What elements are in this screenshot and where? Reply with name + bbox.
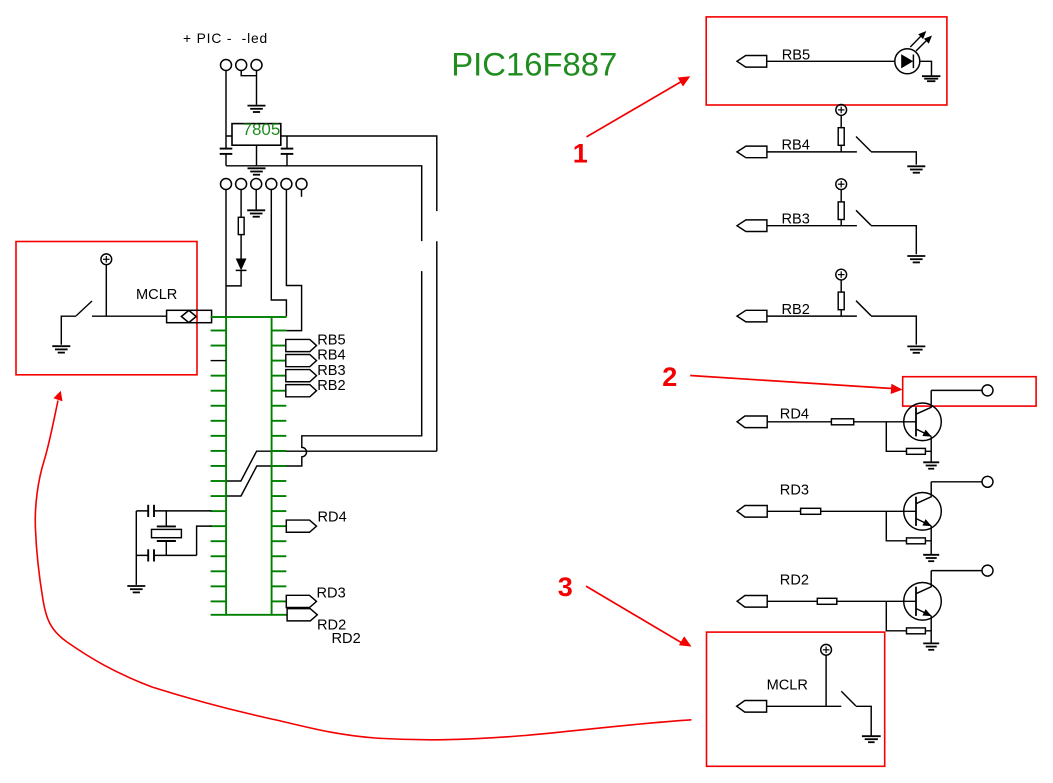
resistor R1 [238, 217, 244, 234]
LED D1 [236, 259, 247, 271]
label RB2 at chip [317, 378, 345, 394]
vcc symbol +V RB3 [836, 179, 847, 190]
wire J2 pin3 down [255, 189, 257, 209]
transistor Q1 [904, 390, 942, 440]
connector J1 pins [221, 60, 263, 71]
capacitor C1 [220, 136, 233, 166]
pin circle Q1 [982, 385, 993, 396]
svg-text:RD3: RD3 [317, 586, 346, 602]
wire J2 pin6 stub [301, 189, 303, 197]
wire RB5 to LED [767, 60, 895, 62]
ground Q1 [923, 462, 939, 468]
resistor pullup RB3 [838, 202, 844, 220]
resistor pullup RB4 [838, 128, 844, 146]
label RB5 at chip [317, 333, 345, 349]
wire base resistor to Q2 [821, 510, 916, 512]
label RD3 [780, 483, 809, 499]
wire emitter Q1 to ground [930, 436, 932, 461]
wire feedback Q3 [886, 601, 931, 631]
wire LED to ground [920, 61, 932, 75]
vcc symbol +V RB2 [836, 269, 847, 280]
resistor base RD3 [801, 508, 821, 514]
annotation box 1 (LED on RB5) [706, 17, 947, 105]
jumper FB1 [167, 310, 212, 322]
annotation arrow 1 [587, 76, 691, 137]
wire switch to ground RB4 [871, 152, 916, 165]
svg-text:RD3: RD3 [780, 483, 809, 499]
wire switch to ground RB3 [871, 226, 916, 255]
label RB2 [782, 302, 810, 318]
port tag RD4 [737, 416, 767, 428]
annotation box 3 (MCLR pushbutton) [707, 632, 885, 766]
wire J2 pin5 to chip pin [286, 189, 301, 331]
wire collector Q3 [931, 570, 982, 572]
label RD3 at chip [317, 586, 346, 602]
ground J1 [248, 106, 266, 112]
wire J1 pin3 down [256, 70, 258, 105]
wire J2 pin4 to chip VDD row [271, 189, 286, 316]
ground RB2 [907, 346, 925, 352]
svg-text:RD4: RD4 [780, 407, 809, 423]
label RB4 at chip [317, 348, 345, 364]
svg-text:RB3: RB3 [317, 363, 345, 379]
resistor base RD4 [831, 419, 853, 425]
annotation arrow 2 [690, 376, 902, 395]
wire base resistor to Q3 [837, 600, 916, 602]
connector J2 pins [221, 179, 308, 190]
ground RB3 [907, 256, 925, 262]
capacitor C2 [281, 136, 294, 166]
wire feedback Q1 [886, 422, 931, 452]
wire R to node RB3 [840, 220, 842, 226]
pin circle Q2 [982, 476, 993, 487]
svg-text:RD2: RD2 [332, 631, 361, 647]
label RD2 at chip [317, 618, 346, 634]
switch blade RB2 [856, 301, 871, 316]
wire switch to ground MCLR [856, 706, 871, 735]
wire RD3 to base resistor [767, 510, 800, 512]
label RB3 [782, 212, 810, 228]
wire J2 pin2 to resistor [240, 189, 242, 217]
ground J2 [247, 210, 265, 216]
label RB5 [782, 48, 810, 64]
pin circle Q3 [982, 565, 993, 576]
wire ground rail [226, 166, 422, 241]
wire +V1 down [105, 265, 107, 317]
port tag RD3 [737, 506, 767, 518]
annotation curved arrow to box A [35, 391, 691, 740]
capacitor C3 [136, 505, 211, 517]
annotation number 3 [558, 572, 573, 602]
label MCLR [136, 287, 177, 303]
port tag RD2 [737, 596, 767, 608]
wire emitter Q3 to ground [930, 616, 932, 643]
wire net A chip pin to +5V vertical [226, 451, 437, 481]
label RD4 at chip [318, 510, 347, 526]
wire switch to ground RB2 [871, 316, 916, 345]
LED D2 [895, 49, 920, 74]
ground RB4 [907, 166, 925, 172]
label RD2 [780, 573, 809, 589]
resistor feedback Q3 [907, 628, 926, 634]
svg-text:3: 3 [558, 572, 573, 602]
svg-text:1: 1 [573, 139, 588, 169]
label MCLR bottom [767, 678, 808, 694]
wire RD2 to base resistor [767, 600, 817, 602]
svg-text:+ PIC - -led: + PIC - -led [183, 31, 268, 46]
resistor feedback Q1 [907, 448, 926, 454]
resistor pullup RB2 [838, 292, 844, 310]
wire RB2 to switch [767, 315, 857, 317]
ground MCLR [862, 736, 881, 742]
wire 7805 ground pin [256, 145, 258, 166]
ground D2 [922, 76, 940, 81]
crystal X1 [152, 511, 182, 556]
wire J1 pin1 to 7805 input [226, 70, 232, 136]
svg-text:PIC16F887: PIC16F887 [451, 45, 617, 82]
svg-text:RB4: RB4 [317, 348, 345, 364]
label RB3 at chip [317, 363, 345, 379]
switch SW2 blade [841, 691, 856, 706]
wire +V to R RB3 [840, 190, 842, 202]
ic U1 PIC16F887 body [226, 317, 272, 615]
annotation arrow 3 [586, 586, 692, 647]
wire emitter Q2 to ground [930, 526, 932, 554]
wire RD4 to base resistor [767, 421, 831, 423]
wire feedback Q2 [886, 511, 931, 541]
capacitor C4 [136, 549, 196, 561]
wire collector Q1 [931, 389, 982, 391]
switch blade RB3 [856, 210, 871, 225]
annotation box A (MCLR pushbutton) [16, 242, 197, 375]
wire R to node RB2 [840, 310, 842, 316]
port tag RB5 at chip [286, 339, 317, 351]
ground SW1 [52, 346, 70, 352]
resistor feedback Q2 [907, 538, 926, 544]
vcc symbol +V MCLR [821, 644, 832, 655]
port tag RD3 at chip [286, 595, 316, 607]
wire 7805 output to right vertical [281, 136, 437, 451]
port tag RB2 at chip [286, 385, 317, 397]
wire base resistor to Q1 [854, 421, 916, 423]
title PIC16F887 [451, 45, 617, 82]
port tag MCLR [737, 701, 767, 713]
wire crystal ground rail [135, 511, 137, 585]
port tag RD4 at chip [286, 520, 316, 532]
ground Q3 [923, 643, 939, 649]
wire J2 pin1 down to MCLR net [225, 189, 227, 316]
port tag RB2 [737, 310, 767, 322]
ic U1 left pins [211, 331, 227, 602]
switch SW1 blade [76, 301, 92, 316]
ic U1 right pins [272, 331, 287, 602]
svg-text:MCLR: MCLR [136, 287, 177, 303]
svg-text:MCLR: MCLR [767, 678, 808, 694]
port tag RB4 at chip [286, 355, 317, 367]
wire collector Q2 [931, 481, 982, 483]
wire C4 to OSC2 pin [197, 526, 212, 555]
annotation number 2 [662, 362, 677, 392]
label RB4 [782, 138, 810, 154]
annotation box 2 (collector pin) [903, 377, 1036, 406]
port tag RB5 [737, 56, 767, 68]
vcc symbol +V1 [101, 254, 112, 265]
connector J1 label [183, 31, 268, 46]
transistor Q2 [904, 482, 942, 530]
wire LED to pin1 net [226, 270, 241, 286]
switch blade RB4 [856, 137, 871, 152]
resistor base RD2 [817, 598, 837, 604]
label RD2 floating [332, 631, 361, 647]
wire +V MCLR down [825, 655, 827, 706]
svg-text:RB5: RB5 [317, 333, 345, 349]
wire MCLR to switch [767, 705, 842, 707]
svg-text:2: 2 [662, 362, 677, 392]
label RD4 [780, 407, 809, 423]
wire R1 to LED [240, 235, 242, 259]
ic U1 bottom pin row [211, 614, 288, 616]
svg-text:RD4: RD4 [318, 510, 347, 526]
ground Q2 [923, 555, 939, 561]
wire net B chip pin with hop [226, 271, 422, 496]
wire +V to R RB2 [840, 280, 842, 292]
svg-text:7805: 7805 [243, 120, 281, 139]
port tag RB4 [737, 146, 767, 158]
ground crystal [127, 586, 145, 592]
wire R to node RB4 [840, 145, 842, 152]
wire RB3 to switch [767, 225, 857, 227]
regulator U2 label 7805 [243, 120, 281, 139]
wire +V to R RB4 [840, 115, 842, 127]
svg-text:RB2: RB2 [317, 378, 345, 394]
wire switch to jumper [61, 316, 166, 345]
wire J1 pin2 to pin3 [241, 70, 256, 76]
annotation number 1 [573, 139, 588, 169]
LED D2 emission arrows [910, 31, 932, 51]
transistor Q3 [904, 571, 942, 621]
port tag RB3 [737, 220, 767, 232]
ground 7805 [248, 168, 266, 174]
regulator U2 body [232, 124, 281, 146]
port tag RD2 at chip [287, 609, 317, 621]
port tag RB3 at chip [286, 370, 317, 382]
wire RB4 to switch [767, 151, 857, 153]
ic U1 top pin row [211, 316, 287, 318]
vcc symbol +V RB4 [836, 105, 847, 116]
svg-text:RD2: RD2 [780, 573, 809, 589]
